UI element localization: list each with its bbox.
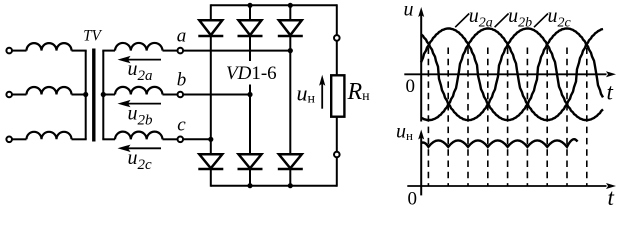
wire column VD6 bottom (289, 169, 291, 186)
leader line u2c (534, 14, 548, 28)
primary winding terminal c (6, 137, 12, 143)
secondary winding L2c (115, 132, 162, 140)
node top rail / VD2 (247, 3, 252, 8)
terminal b (178, 92, 184, 98)
wire secondary a to terminal (163, 50, 178, 52)
node primary star point (83, 92, 88, 97)
wire column VD5 bottom (249, 169, 251, 186)
node bottom rail / VD6 (288, 183, 293, 188)
secondary winding L2a (115, 43, 162, 51)
curve un ripple (421, 139, 577, 147)
svg-text:c: c (177, 114, 186, 135)
wire column VD4 bottom (210, 169, 212, 187)
wire load branch bottom (336, 157, 338, 186)
resistor Rn (331, 75, 344, 116)
svg-text:0: 0 (408, 189, 418, 210)
wire column VD2 lower-mid (249, 85, 251, 155)
wire phase a to bridge (183, 50, 290, 52)
primary winding L1c (27, 132, 72, 139)
dashed line t4 (487, 48, 489, 187)
svg-text:a: a (177, 26, 187, 47)
wire column VD3 top (289, 5, 291, 20)
node top rail / VD3 (288, 3, 293, 8)
wire column VD1-VD4 middle (210, 36, 212, 154)
diode VD5 (239, 154, 262, 168)
svg-text:b: b (177, 70, 187, 91)
leader line u2b (495, 14, 509, 28)
terminal load top (334, 35, 340, 41)
wire secondary b from star (102, 94, 115, 96)
terminal a (178, 48, 184, 54)
terminal load bottom (334, 152, 340, 158)
curve u2a (421, 29, 603, 121)
dashed line t5 (507, 48, 509, 187)
wire primary a (12, 50, 27, 52)
dashed line t9 (586, 48, 588, 187)
wire load top to resistor (336, 41, 338, 76)
wire primary c to star point (72, 138, 87, 140)
svg-text:t: t (607, 79, 614, 104)
voltage arrow u2a (118, 56, 131, 63)
leader line u2a (455, 14, 469, 28)
node b / VD2-VD5 (247, 92, 252, 97)
dashed line t2 (447, 48, 449, 187)
wire column VD2 top (249, 5, 251, 20)
wire column VD2 upper-mid (249, 36, 251, 61)
dashed line t1 (427, 48, 429, 187)
wire load branch top (336, 4, 338, 35)
node a / VD3-VD6 (288, 48, 293, 53)
wire primary c (12, 138, 27, 140)
diode VD1 (199, 20, 222, 35)
wire primary star bus (85, 51, 87, 140)
diode VD6 (279, 154, 302, 168)
primary winding terminal a (6, 48, 12, 54)
diode VD2 (239, 20, 262, 35)
transformer TV core (92, 49, 95, 142)
axis t (bottom plot) (407, 185, 606, 187)
wire column VD1 top (210, 4, 212, 20)
wire top rail (211, 4, 337, 6)
dashed line t6 (526, 48, 528, 187)
wire primary b to star point (72, 94, 87, 96)
terminal c (178, 137, 184, 143)
wire secondary star bus (102, 51, 104, 140)
dashed line t7 (546, 48, 548, 187)
svg-text:TV: TV (83, 28, 103, 45)
wire column VD3-VD6 middle (289, 36, 291, 154)
primary winding L1b (27, 87, 72, 95)
secondary winding L2b (115, 87, 162, 95)
svg-text:VD1-6: VD1-6 (226, 63, 277, 84)
wire resistor to load bottom (336, 117, 338, 152)
wire secondary c from star (102, 138, 115, 140)
voltage arrow u2c (118, 145, 131, 152)
primary winding L1a (27, 43, 72, 50)
axis t (top plot) (404, 73, 606, 75)
wire bottom rail (211, 185, 337, 187)
curve u2b (421, 29, 603, 121)
voltage arrow u2b (118, 100, 131, 107)
voltage arrow un (319, 75, 325, 86)
wire secondary c to terminal (163, 138, 178, 140)
dashed line t8 (566, 48, 568, 187)
svg-text:t: t (608, 185, 615, 209)
wire phase c to bridge (183, 138, 211, 140)
axis un (bottom plot) (420, 136, 422, 196)
wire primary a to star point (72, 50, 87, 52)
node bottom rail / VD5 (247, 183, 252, 188)
wire secondary a from star (102, 50, 115, 52)
diode VD3 (279, 20, 302, 35)
node c / VD1-VD4 (208, 137, 213, 142)
wire secondary b to terminal (163, 94, 178, 96)
dashed line t3 (467, 48, 469, 187)
curve u2c (421, 29, 603, 121)
svg-text:0: 0 (406, 76, 416, 97)
node secondary star point (101, 92, 106, 97)
primary winding terminal b (6, 92, 12, 98)
wire phase b to bridge (183, 94, 250, 96)
axis u (top plot) (420, 14, 422, 122)
diode VD4 (199, 154, 222, 168)
wire primary b (12, 94, 27, 96)
svg-text:u: u (404, 0, 414, 21)
